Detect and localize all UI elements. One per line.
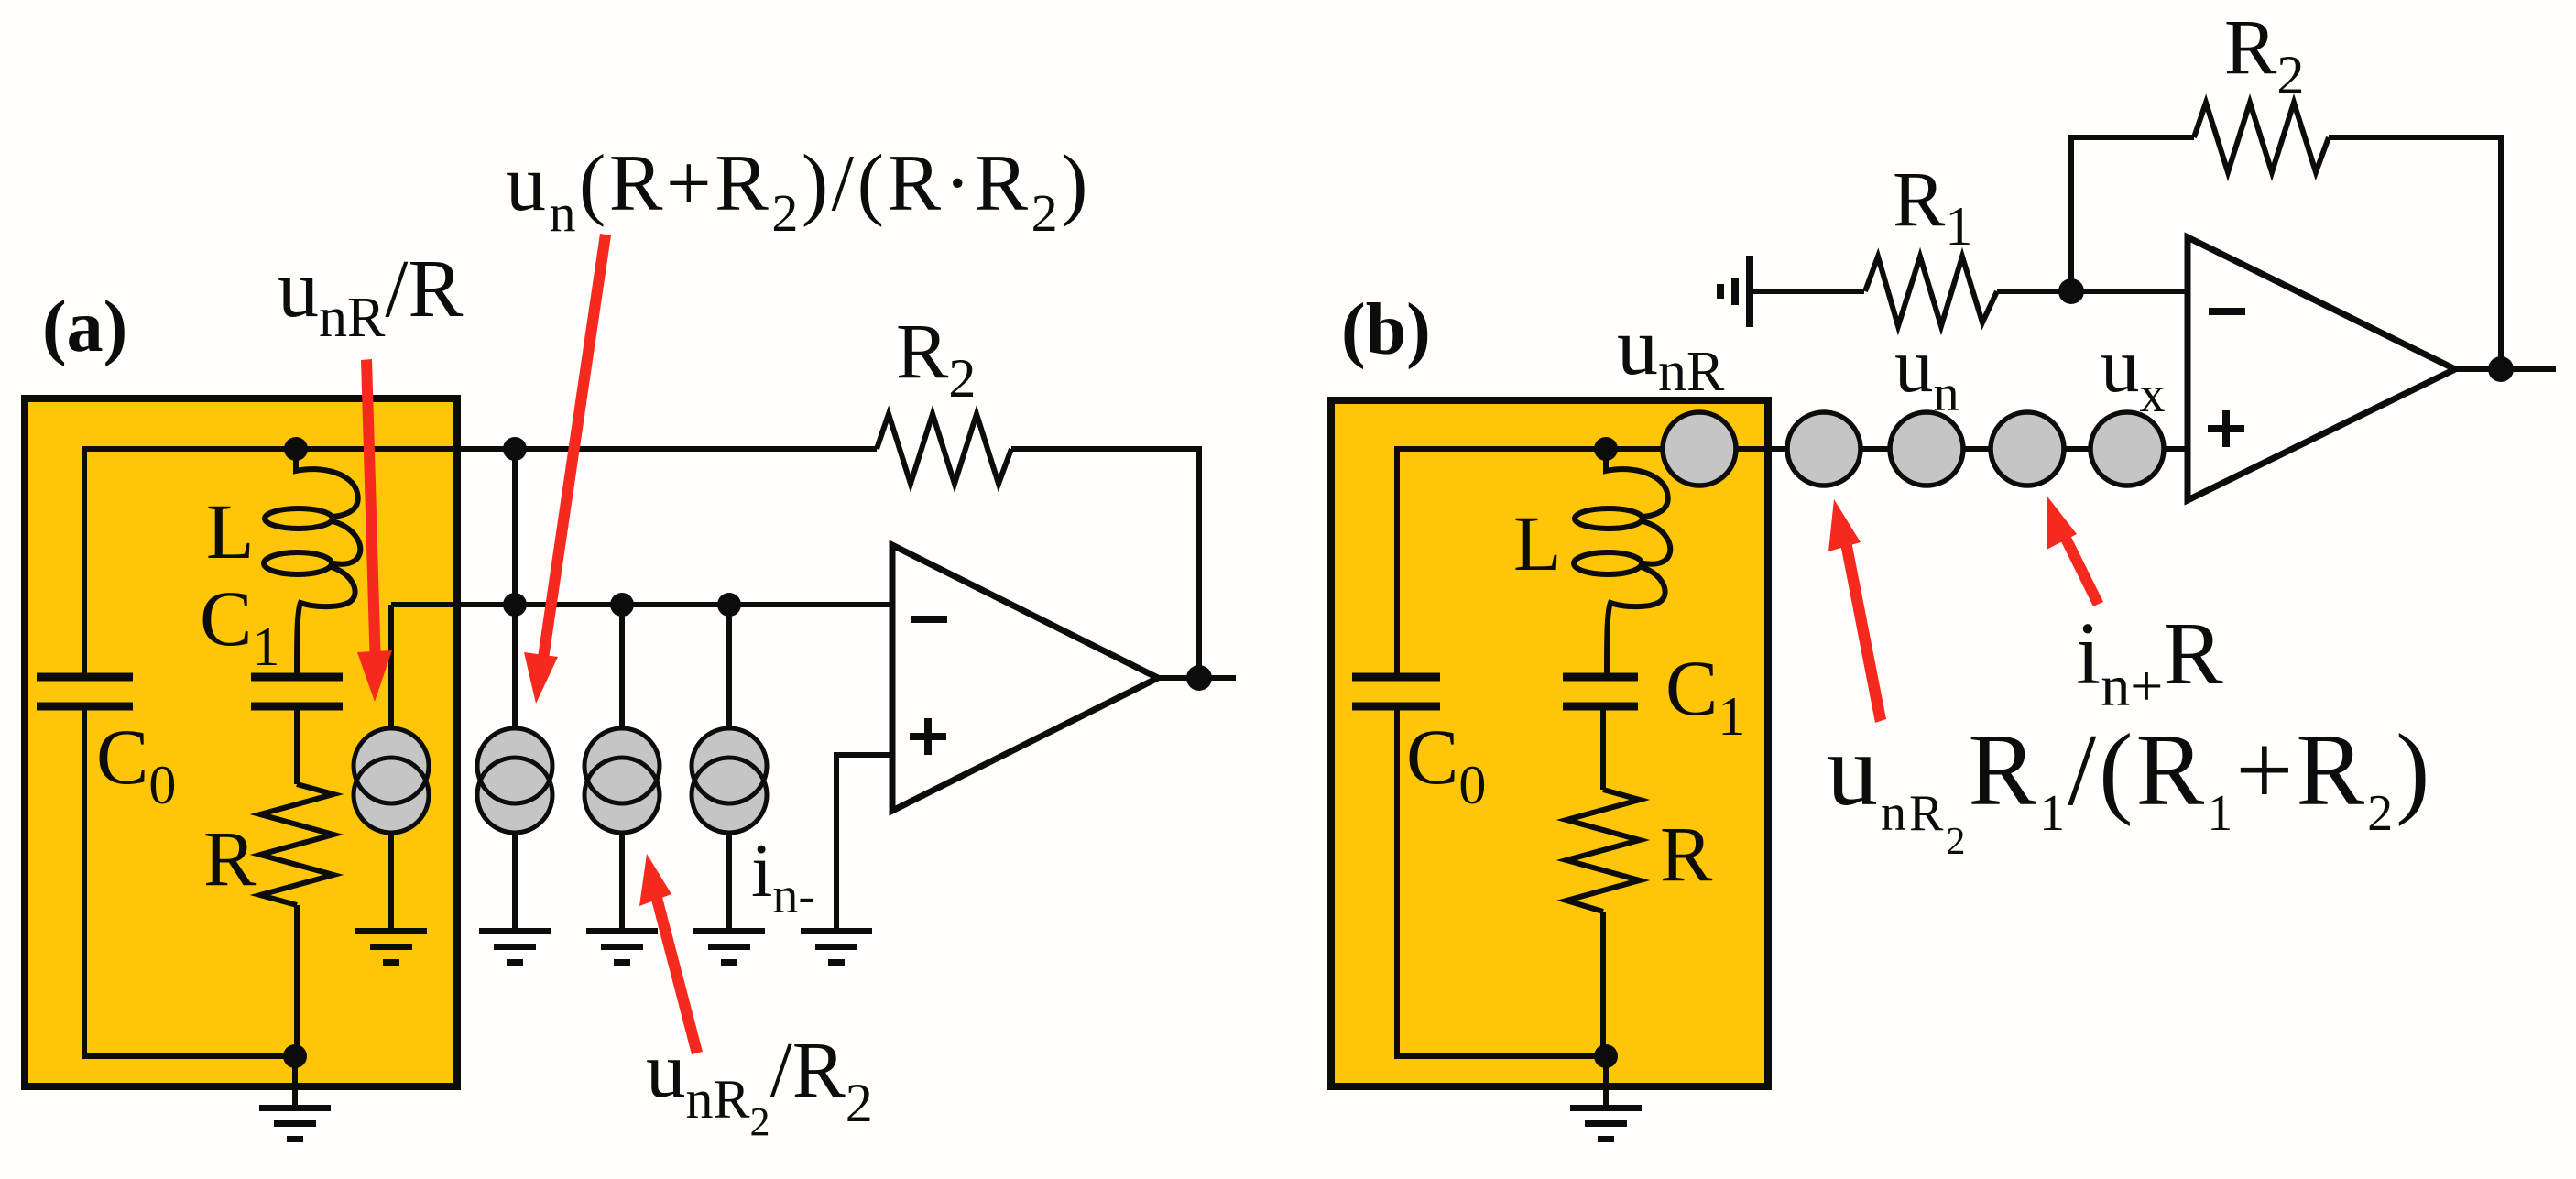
node minus 1 (a) bbox=[503, 593, 527, 617]
resonator box (b) bbox=[1331, 400, 1768, 1086]
red arrow i_n+R (b) bbox=[2047, 497, 2103, 606]
wire top (b) bbox=[1397, 446, 2188, 452]
voltage source u_n bbox=[1890, 412, 1963, 486]
wire left vertical lower (b) bbox=[1394, 706, 1400, 1059]
node top L (a) bbox=[284, 437, 308, 461]
voltage source u_x bbox=[2090, 412, 2164, 486]
red arrow u_nR2/R2 bbox=[639, 854, 703, 1054]
red arrow u_n formula bbox=[524, 234, 611, 704]
wire below source4 (a) bbox=[726, 829, 732, 931]
ground source1 (a) bbox=[355, 928, 427, 966]
ground source4 (a) bbox=[693, 928, 765, 966]
capacitor C0 bbox=[37, 673, 133, 682]
svg-text:(b): (b) bbox=[1341, 289, 1431, 370]
resistor R (a) bbox=[260, 784, 333, 905]
wire output (b) bbox=[2455, 366, 2556, 372]
resistor R2 (b) bbox=[2194, 103, 2329, 172]
wire minus rail (a) bbox=[391, 602, 892, 607]
op-amp U2 (b) bbox=[2188, 237, 2455, 500]
resistor R (b) bbox=[1566, 790, 1640, 912]
wire R1 to opamp (b) bbox=[1997, 289, 2188, 294]
red arrow u_nR/R bbox=[357, 359, 392, 702]
wire vertical joint (a) bbox=[512, 449, 518, 728]
wire top (a) bbox=[84, 446, 877, 452]
current source u_nR2/R2 bbox=[584, 728, 660, 833]
ground stem bottom (a) bbox=[292, 1056, 298, 1107]
wire below source2 (a) bbox=[512, 829, 518, 931]
capacitor C1 (b) bbox=[1563, 673, 1638, 682]
feedback wire right (b) bbox=[2329, 137, 2501, 369]
svg-text:L: L bbox=[1513, 499, 1562, 587]
resistor R1 (b) bbox=[1865, 257, 1997, 326]
current source u_n(R+R2)/(R R2) bbox=[477, 728, 552, 833]
node output (b) bbox=[2488, 356, 2514, 382]
capacitor C1 (a) bbox=[251, 673, 343, 682]
inductor L (a) bbox=[264, 449, 360, 677]
svg-text:R: R bbox=[1660, 810, 1713, 898]
node top joint (a) bbox=[503, 437, 527, 461]
wire minus rail (b) bbox=[1753, 289, 1864, 294]
ground source3 (a) bbox=[586, 928, 658, 966]
feedback wire (b) bbox=[2071, 137, 2194, 291]
voltage source 2 bbox=[1787, 412, 1861, 486]
ground bottom (b) bbox=[1570, 1105, 1642, 1142]
wire below source3 (a) bbox=[619, 829, 625, 931]
capacitor C0 (b) bbox=[1352, 673, 1440, 682]
node minus 3 (a) bbox=[717, 593, 741, 617]
wire C1-R (a) bbox=[294, 706, 300, 784]
svg-text:(a): (a) bbox=[42, 287, 127, 367]
ground bottom (a) bbox=[259, 1105, 331, 1142]
svg-text:R: R bbox=[203, 814, 257, 902]
wire left vertical lower (a) bbox=[82, 706, 87, 1059]
ground source2 (a) bbox=[479, 928, 551, 966]
current source u_nR/R bbox=[354, 728, 429, 833]
stub source1 (a) bbox=[388, 605, 394, 733]
wire left vertical upper (a) bbox=[82, 446, 87, 677]
wire bottom (b) bbox=[1394, 1053, 1606, 1059]
inductor L (b) bbox=[1574, 449, 1670, 677]
wire R-bottom (a) bbox=[294, 905, 300, 1056]
resonator box (a) bbox=[25, 398, 457, 1086]
node output (a) bbox=[1186, 665, 1212, 691]
op-amp U1 (a) bbox=[892, 545, 1158, 811]
wire below source1 (a) bbox=[388, 829, 394, 931]
red arrow u_nR2R1 (b) bbox=[1828, 499, 1886, 723]
ground stem bottom (b) bbox=[1603, 1056, 1609, 1107]
wire output stub (a) bbox=[1158, 675, 1236, 681]
resistor R2 (a) bbox=[877, 414, 1011, 484]
sideways ground (b) bbox=[1717, 256, 1753, 327]
node bottom (a) bbox=[283, 1044, 307, 1068]
wire left vertical upper (b) bbox=[1394, 446, 1400, 677]
node top L (b) bbox=[1594, 437, 1618, 461]
wire R-bottom (b) bbox=[1600, 912, 1606, 1056]
stub source3 (a) bbox=[619, 605, 625, 733]
ground plus (a) bbox=[801, 928, 872, 966]
node minus 2 (a) bbox=[610, 593, 634, 617]
wire plus input (a) bbox=[836, 755, 892, 931]
wire R2 to output (a) bbox=[1011, 449, 1199, 678]
wire bottom (a) bbox=[82, 1053, 295, 1059]
svg-text:L: L bbox=[206, 487, 255, 575]
current source i_n- bbox=[692, 728, 767, 833]
voltage source u_nR bbox=[1663, 412, 1736, 486]
node minus (b) bbox=[2058, 278, 2084, 304]
wire C1-R (b) bbox=[1600, 706, 1606, 790]
stub source4 (a) bbox=[726, 605, 732, 733]
voltage source 4 bbox=[1991, 412, 2064, 486]
node bottom (b) bbox=[1594, 1044, 1618, 1068]
